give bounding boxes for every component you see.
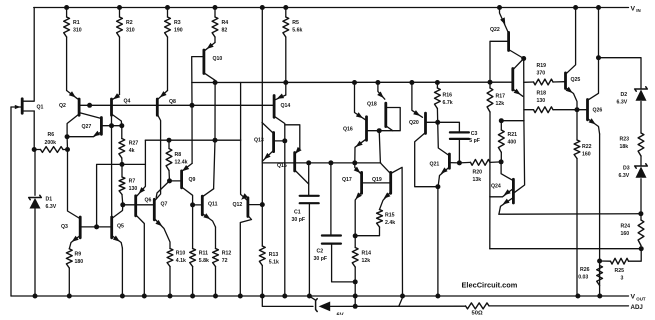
svg-text:6.3V: 6.3V — [46, 204, 57, 210]
wire node to R6 level — [66, 137, 68, 150]
junction base bus at Q10 column — [190, 103, 195, 108]
svg-text:R5: R5 — [292, 20, 299, 26]
svg-text:30 pF: 30 pF — [292, 217, 306, 223]
wire D2 branch — [599, 58, 642, 88]
junction Q16/Q17 node — [352, 160, 357, 165]
resistor R18 — [524, 91, 577, 113]
wire R5 to Q14 emitter — [285, 37, 287, 95]
node ADJ label — [631, 304, 644, 311]
svg-text:R7: R7 — [129, 179, 136, 185]
transistor Q20 — [409, 83, 426, 134]
junction bias bus — [352, 80, 357, 85]
svg-text:Q27: Q27 — [82, 124, 92, 130]
wire D2 to R23 — [640, 102, 642, 134]
junction R24 bottom — [639, 246, 644, 251]
svg-text:C3: C3 — [471, 131, 478, 137]
junction bottom rail — [190, 294, 195, 299]
transistor Q8 — [157, 91, 176, 116]
label ElecCircuit.com — [462, 281, 518, 290]
svg-text:D2: D2 — [621, 92, 628, 98]
transistor Q3 — [61, 217, 80, 249]
svg-text:Q17: Q17 — [342, 177, 352, 183]
wire R4 to Q10 emitter — [214, 37, 216, 43]
resistor R27b 50ohm — [466, 303, 629, 317]
svg-text:4.1k: 4.1k — [176, 258, 186, 264]
junction on top rail — [283, 5, 288, 10]
svg-text:R8: R8 — [175, 152, 182, 158]
svg-text:Q20: Q20 — [409, 120, 419, 126]
wire Q10 collector — [204, 73, 215, 83]
wire D1 to bottom rail — [34, 209, 36, 296]
resistor R2 — [117, 8, 135, 38]
transistor Q16 — [343, 83, 367, 163]
junction Q21 emitter node — [435, 184, 440, 189]
svg-text:6.3V: 6.3V — [617, 100, 628, 106]
junction bias bus at R17 — [488, 80, 493, 85]
junction bottom rail — [213, 294, 218, 299]
wire Q22 base — [490, 41, 509, 82]
junction bottom rail — [67, 294, 72, 299]
transistor Q18 — [367, 83, 386, 127]
junction R27 bottom — [120, 162, 125, 167]
transistor Q10 — [204, 43, 223, 74]
wire Q16 node down — [379, 131, 380, 163]
transistor Q27 — [67, 113, 101, 137]
wire top supply rail — [34, 7, 629, 9]
svg-text:ElecCircuit.com: ElecCircuit.com — [462, 281, 518, 290]
junction base bus at Q2 — [87, 103, 92, 108]
wire Q24 upper emitter bus — [490, 248, 641, 250]
svg-text:Q26: Q26 — [593, 108, 603, 114]
svg-text:6.7k: 6.7k — [443, 100, 453, 106]
svg-text:R4: R4 — [222, 20, 229, 26]
wire C2 to R14 node — [332, 244, 356, 282]
svg-text:3: 3 — [621, 276, 624, 282]
junction Q27 base a — [109, 123, 114, 128]
junction bias bus — [375, 80, 380, 85]
junction bottom rail — [260, 294, 265, 299]
zener diode D3 — [619, 164, 648, 179]
junction bottom rail — [353, 294, 358, 299]
wire Q6 base line — [123, 204, 136, 206]
transistor Q6 — [136, 196, 152, 216]
junction R20 right — [499, 159, 504, 164]
wire main column x262 — [261, 8, 263, 247]
svg-text:R17: R17 — [496, 94, 506, 100]
svg-text:400: 400 — [508, 139, 517, 145]
transistor Q12 — [233, 140, 263, 217]
junction R16 bottom — [435, 120, 440, 125]
resistor R27 — [119, 139, 139, 165]
svg-text:R25: R25 — [615, 268, 625, 274]
wire Q8 collector to Q7 — [156, 114, 161, 200]
svg-text:160: 160 — [582, 151, 591, 157]
wire Q27 base line — [101, 125, 122, 127]
junction Q27 base b — [119, 123, 124, 128]
junction Q22 collector node — [521, 56, 526, 61]
wire Q27 emitter node to Q3 collector — [68, 150, 80, 219]
junction bias bus — [283, 80, 288, 85]
resistor R25 — [600, 258, 629, 281]
wire bias drop x240 — [240, 83, 242, 141]
junction R8 top — [167, 138, 172, 143]
junction bottom rail — [142, 294, 147, 299]
junction emitter bus right — [638, 211, 643, 216]
wire Q6 emitter drop — [137, 140, 145, 196]
svg-text:R1: R1 — [73, 20, 80, 26]
svg-text:Q21: Q21 — [430, 162, 440, 168]
junction D2 branch — [596, 55, 601, 60]
svg-text:200k: 200k — [45, 140, 57, 146]
resistor R10 labels — [176, 251, 186, 264]
transistor Q9 — [170, 163, 196, 187]
transistor Q4 — [112, 93, 131, 115]
wire Q6 collector — [136, 215, 145, 296]
svg-text:Q22: Q22 — [490, 27, 500, 33]
svg-text:Q10: Q10 — [213, 56, 223, 62]
svg-text:4k: 4k — [129, 148, 135, 154]
junction bias bus — [213, 80, 218, 85]
wire Q18 fold — [379, 108, 400, 131]
junction on top rail — [213, 5, 218, 10]
resistor R11 — [190, 249, 209, 297]
svg-text:Q12: Q12 — [233, 202, 243, 208]
wire VOUT rail — [11, 295, 629, 297]
svg-text:C2: C2 — [317, 249, 324, 255]
svg-text:C1: C1 — [294, 210, 301, 216]
svg-text:Q5: Q5 — [117, 224, 124, 230]
svg-text:IN: IN — [636, 8, 640, 13]
svg-text:R18: R18 — [537, 91, 547, 97]
junction C3 bottom node — [457, 160, 462, 165]
wire mid bus y163 — [262, 162, 380, 164]
wire Q18 collector — [386, 126, 393, 131]
junction C2 bottom node — [353, 279, 358, 284]
svg-text:R3: R3 — [174, 20, 181, 26]
svg-text:Q4: Q4 — [124, 99, 131, 105]
transistor Q23 — [513, 59, 524, 97]
svg-text:V: V — [631, 294, 636, 301]
svg-text:R26: R26 — [580, 267, 590, 273]
wire Q23 collector column — [514, 59, 525, 193]
svg-text:12.4k: 12.4k — [175, 159, 188, 165]
transistor Q13 — [254, 123, 285, 162]
junction ADJ at R14 column — [353, 304, 358, 309]
junction R21 top — [499, 118, 504, 123]
wire Q11 emitter lead — [215, 227, 217, 249]
resistor R10 — [167, 249, 173, 297]
svg-text:R23: R23 — [620, 137, 630, 143]
wire ADJ rail link — [399, 296, 403, 306]
svg-text:30 pF: 30 pF — [314, 256, 328, 262]
svg-text:R14: R14 — [362, 251, 372, 257]
svg-text:Q19: Q19 — [372, 177, 382, 183]
transistor Q11 — [193, 189, 218, 227]
junction bias bus — [409, 80, 414, 85]
capacitor C1 — [292, 196, 319, 223]
junction bottom rail — [282, 294, 287, 299]
transistor Q19 — [372, 163, 391, 210]
junction bias bus — [435, 80, 440, 85]
resistor R1 — [64, 8, 82, 38]
wire Q10 base — [192, 57, 204, 106]
zener diode D2 — [617, 87, 648, 106]
transistor Q22 — [490, 8, 509, 51]
wire left column from rail to Q1 drain — [23, 8, 34, 102]
resistor R16 — [435, 83, 453, 123]
svg-text:R21: R21 — [508, 132, 518, 138]
svg-text:Q1: Q1 — [37, 105, 44, 111]
svg-text:D1: D1 — [46, 197, 53, 203]
resistor R21 — [498, 121, 524, 162]
resistor R7 — [119, 177, 137, 205]
transistor Q-adj device — [309, 296, 330, 311]
junction on top rail — [260, 5, 265, 10]
resistor R4 — [212, 8, 228, 38]
wire Q12 collector — [240, 216, 251, 297]
node VOUT label — [631, 294, 646, 302]
wire Q9Q7 tie — [156, 181, 169, 198]
svg-text:13k: 13k — [473, 177, 482, 183]
svg-text:D3: D3 — [623, 166, 630, 172]
resistor R24 — [621, 214, 644, 249]
junction Q9 base — [167, 178, 172, 183]
wire Q1 source to R6 node — [33, 111, 35, 150]
svg-text:OUT: OUT — [636, 296, 646, 301]
svg-text:82: 82 — [222, 27, 228, 33]
transistor Q1 — [11, 99, 44, 113]
svg-text:R24: R24 — [621, 224, 631, 230]
svg-text:310: 310 — [73, 27, 82, 33]
svg-text:Q3: Q3 — [61, 224, 68, 230]
transistor Q5 — [112, 205, 124, 248]
wire Q2 collector down — [67, 114, 79, 137]
junction bottom rail — [597, 294, 602, 299]
svg-text:R15: R15 — [385, 213, 395, 219]
resistor R13 — [259, 246, 279, 296]
wire Q20 collector — [415, 133, 438, 187]
transistor Q24 — [490, 162, 514, 214]
wire ADJ line left — [262, 296, 313, 306]
svg-text:R6: R6 — [48, 132, 55, 138]
wire Q15 emitter jog — [285, 125, 300, 149]
junction bottom rail — [307, 294, 312, 299]
wire R3 to Q8 emitter — [167, 37, 169, 91]
wire C2 column — [330, 163, 332, 236]
svg-text:160: 160 — [621, 231, 630, 237]
wire Q13 base node down to rail — [284, 141, 286, 296]
resistor R3 — [165, 8, 183, 38]
junction R6 right — [65, 147, 70, 152]
wire Q1 gate down left edge — [10, 107, 12, 296]
wire bias bus y82 — [192, 81, 513, 83]
wire node down to Q5 bar — [111, 126, 113, 217]
wire C3 top lead — [438, 122, 460, 132]
wire C1 to rail — [308, 203, 310, 296]
junction Q12 base — [260, 202, 265, 207]
zener diode D1 — [29, 195, 57, 210]
resistor R23 — [620, 133, 644, 156]
svg-text:Q24: Q24 — [491, 184, 501, 190]
junction bottom rail — [575, 294, 580, 299]
wire R27 node right — [122, 163, 145, 165]
svg-text:R20: R20 — [473, 170, 483, 176]
junction R14 top — [353, 233, 358, 238]
wire D1 column — [34, 150, 36, 196]
svg-text:Q8: Q8 — [169, 99, 176, 105]
wire D3 to node — [640, 179, 642, 214]
svg-text:6.3V: 6.3V — [619, 173, 630, 179]
junction Q27 emitter node — [65, 134, 70, 139]
wire ADJ line right — [330, 305, 465, 307]
wire Q7 emitter — [154, 219, 170, 249]
wire x215 column — [214, 83, 216, 141]
wire Q3/Q5 base line — [80, 226, 112, 228]
wire Q22 collector — [509, 50, 524, 59]
node VIN label — [631, 6, 641, 14]
svg-text:180: 180 — [75, 259, 84, 265]
wire Q9 collector down — [182, 187, 193, 249]
wire R27 node left to Q3/Q5 base — [97, 164, 122, 227]
wire Q24 lower emitter bus — [499, 213, 641, 216]
transistor Q7 — [154, 199, 167, 220]
svg-text:Q15: Q15 — [277, 163, 287, 169]
wire R17 bottom column — [489, 112, 491, 249]
wire R2 to Q4 emitter — [119, 37, 121, 95]
resistor R9 — [66, 249, 83, 296]
wire R8 lead — [168, 140, 170, 148]
wire Q19 right column — [391, 167, 403, 296]
wire Q6Q7 base tie — [136, 204, 155, 206]
junction bottom rail — [33, 294, 38, 299]
wire x215 column to Q11 — [214, 140, 215, 189]
junction bottom rail — [400, 294, 405, 299]
svg-text:72: 72 — [222, 258, 228, 264]
wire Q14 collector column — [274, 116, 285, 141]
wire row y140 — [145, 139, 240, 141]
wire R27 column — [121, 126, 123, 139]
svg-text:130: 130 — [537, 98, 546, 104]
svg-text:V: V — [631, 6, 636, 13]
resistor R17 — [487, 82, 505, 112]
junction C2 top — [328, 160, 333, 165]
svg-text:Q7: Q7 — [161, 202, 168, 208]
svg-text:5.6k: 5.6k — [292, 27, 302, 33]
wire Q20 base — [426, 121, 438, 123]
resistor R20 — [459, 160, 501, 183]
junction on top rail — [497, 5, 502, 10]
svg-text:Q9: Q9 — [189, 177, 196, 183]
svg-text:Q25: Q25 — [571, 77, 581, 83]
junction Q13 base node — [282, 138, 287, 143]
svg-text:R9: R9 — [75, 252, 82, 258]
junction x215 at y140 — [213, 138, 218, 143]
transistor Q26 — [577, 8, 602, 135]
wire Q4 collector — [112, 114, 122, 126]
svg-text:50Ω: 50Ω — [472, 311, 483, 316]
junction bottom rail — [435, 294, 440, 299]
junction bottom rail — [120, 294, 125, 299]
junction C1 top — [306, 160, 311, 165]
label 6V cut — [337, 313, 344, 319]
junction R25 left — [597, 259, 602, 264]
svg-text:12k: 12k — [362, 258, 371, 264]
transistor Q17 — [342, 163, 362, 236]
wire base bus y105 — [79, 104, 274, 106]
svg-text:370: 370 — [537, 70, 546, 76]
junction bottom rail — [168, 294, 173, 299]
svg-text:R19: R19 — [537, 63, 547, 69]
svg-text:R22: R22 — [582, 144, 592, 150]
wire Q26 emitter column — [599, 134, 601, 296]
svg-text:18k: 18k — [620, 144, 629, 150]
transistor Q14 — [274, 94, 290, 118]
junction on top rail — [64, 5, 69, 10]
svg-text:Q14: Q14 — [281, 103, 291, 109]
svg-text:12k: 12k — [496, 101, 505, 107]
svg-text:5 pF: 5 pF — [469, 138, 480, 144]
svg-text:2.4k: 2.4k — [385, 220, 395, 226]
wire R23 to D3 — [640, 156, 642, 165]
junction bottom rail — [238, 294, 243, 299]
resistor R12 — [213, 249, 232, 297]
wire Q4 bar extension down — [111, 115, 113, 126]
resistor R26 — [578, 266, 602, 286]
transistor Q15 — [277, 147, 309, 184]
svg-text:R16: R16 — [443, 93, 453, 99]
capacitor C2 — [314, 236, 341, 263]
transistor Q21 — [430, 122, 460, 186]
svg-text:R27: R27 — [129, 141, 139, 147]
svg-text:310: 310 — [126, 27, 135, 33]
junction Q26 base — [575, 107, 580, 112]
junction on top rail — [117, 5, 122, 10]
transistor Q25 — [566, 8, 581, 110]
svg-text:Q16: Q16 — [343, 127, 353, 133]
capacitor C3 — [450, 131, 480, 144]
junction on top rail — [596, 5, 601, 10]
resistor R14 — [352, 236, 371, 307]
svg-text:Q18: Q18 — [367, 102, 377, 108]
svg-text:R13: R13 — [269, 252, 279, 258]
svg-text:Q2: Q2 — [59, 103, 66, 109]
resistor R6 — [34, 132, 67, 152]
junction on top rail — [165, 5, 170, 10]
svg-text:R2: R2 — [126, 20, 133, 26]
resistor R22 — [574, 110, 592, 296]
svg-text:Q6: Q6 — [145, 198, 152, 204]
wire C3 bottom lead — [458, 139, 460, 163]
junction Q16 base node — [377, 128, 382, 133]
svg-text:ADJ: ADJ — [631, 304, 644, 311]
resistor R5 — [283, 8, 303, 38]
wire Q17Q19 tie — [362, 182, 391, 184]
svg-text:5.1k: 5.1k — [269, 259, 279, 265]
svg-text:0.03: 0.03 — [578, 275, 588, 281]
resistor R19 — [524, 63, 565, 85]
svg-text:R12: R12 — [222, 251, 232, 257]
wire R1 to Q2 emitter — [66, 37, 68, 91]
wire R7 lead — [121, 164, 123, 177]
wire Q5 emitter to rail — [121, 248, 123, 296]
wire Q9 emitter up — [191, 105, 193, 163]
wire Q16 base — [367, 130, 380, 132]
wire Q21 emitter column to rail — [437, 187, 439, 296]
svg-text:190: 190 — [174, 27, 183, 33]
junction R7 bottom — [120, 202, 125, 207]
svg-text:5.8k: 5.8k — [199, 258, 209, 264]
svg-text:R11: R11 — [199, 251, 208, 257]
